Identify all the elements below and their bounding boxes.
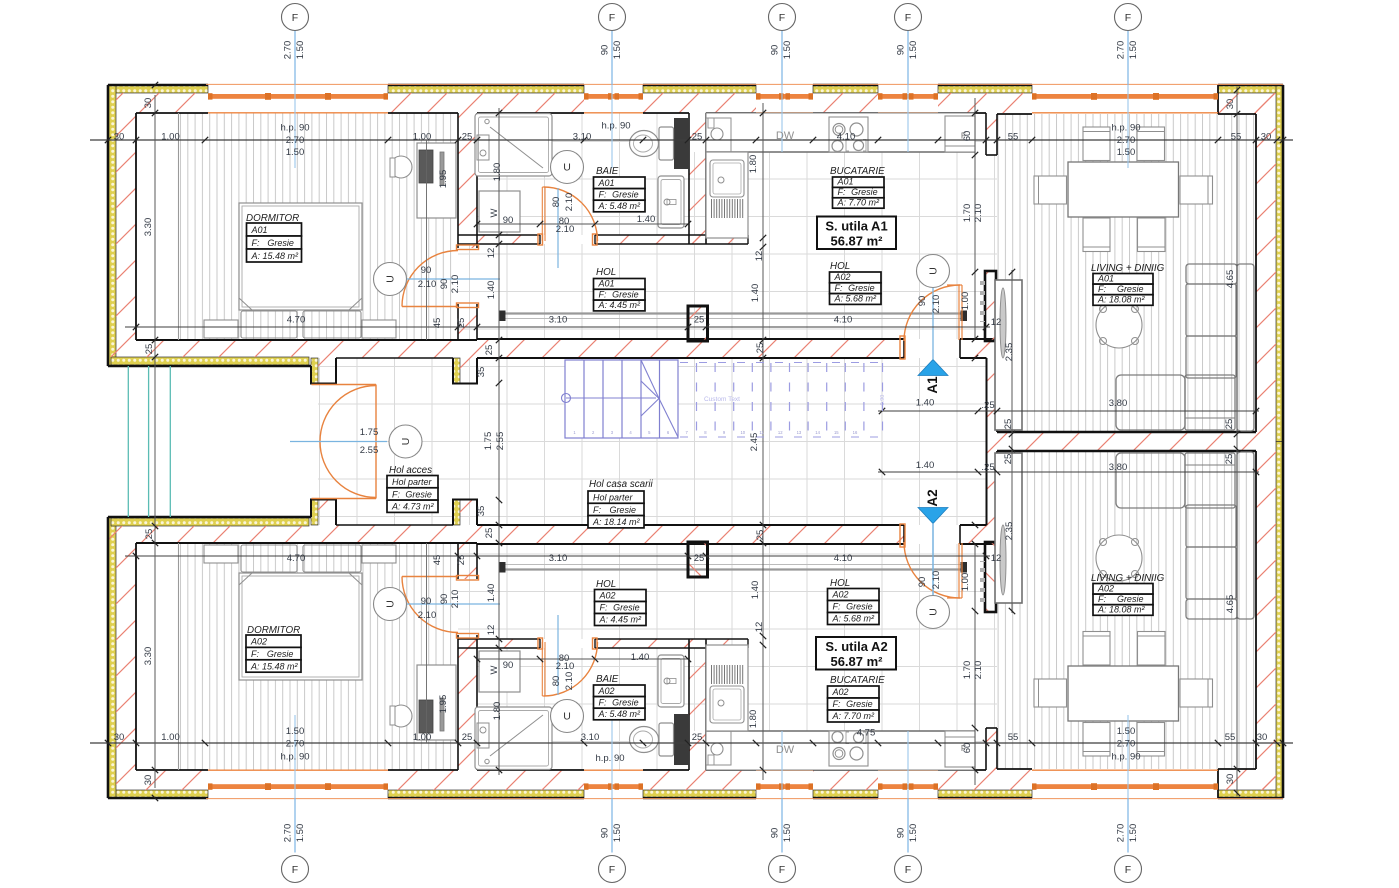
svg-text:A02: A02 [832,687,849,697]
kitchen counter [706,113,975,152]
porch wall outer face [108,365,311,367]
svg-text:4.10: 4.10 [834,553,853,564]
porch pier insulation right [453,358,460,383]
dimension column x1237 [1236,87,1238,442]
A2 door axis line [932,524,934,595]
top wall insulation yellow band [108,85,208,93]
room label BAIE [594,674,646,720]
svg-text:1.75: 1.75 [360,427,379,438]
svg-text:2.10: 2.10 [931,295,942,314]
svg-text:h.p. 90: h.p. 90 [1111,752,1140,763]
stair break lines [641,360,659,399]
svg-text:A01: A01 [837,177,854,187]
svg-text:Hol parter: Hol parter [593,493,634,503]
svg-text:45: 45 [432,555,443,566]
svg-text:1.50: 1.50 [782,41,793,60]
svg-text:90: 90 [896,828,907,839]
svg-text:A: 15.48 m²: A: 15.48 m² [251,251,300,261]
kitchen sink drainer [712,199,743,218]
svg-text:Gresie: Gresie [612,697,639,707]
grid marker F bottom x295 [282,856,309,883]
svg-text:S. utila A2: S. utila A2 [825,639,887,654]
svg-text:12: 12 [486,248,497,259]
room label HOL [828,578,880,625]
radiator dashes [980,281,985,322]
arrow A1 [918,360,948,376]
dimension row center [878,410,1259,412]
svg-text:F:: F: [1098,284,1106,294]
svg-text:A: 5.68 m²: A: 5.68 m² [832,614,876,624]
stair tread numbers [573,430,858,435]
svg-text:30: 30 [143,98,154,109]
svg-text:90: 90 [917,296,928,307]
svg-text:1.50: 1.50 [286,147,305,158]
svg-text:A02: A02 [832,590,849,600]
svg-text:U: U [563,162,571,174]
svg-text:1.40: 1.40 [916,398,935,409]
porch pier left outline [311,358,336,384]
grid marker F bottom x908 [895,856,922,883]
svg-text:4.70: 4.70 [287,553,306,564]
porch canopy teal lines [128,366,170,517]
wall hatch fills [108,93,1276,790]
window W5 frame [1032,93,1218,113]
svg-text:U: U [928,608,940,616]
bedroom parquet boundary line [178,113,180,340]
svg-text:1.70: 1.70 [962,204,973,223]
kitchen tall sink unit [706,152,748,238]
svg-text:1.80: 1.80 [492,163,503,182]
svg-text:15: 15 [834,430,839,435]
svg-text:55: 55 [1225,732,1236,743]
svg-text:1.50: 1.50 [908,824,919,843]
mirrored floors bottom half [108,442,1283,799]
bed pillows [241,311,361,338]
svg-text:60: 60 [962,743,973,754]
svg-text:4.70: 4.70 [287,315,306,326]
grid axis blue lines [295,31,1128,853]
arrow A2 [918,508,948,524]
svg-text:Gresie: Gresie [1117,284,1144,294]
svg-text:DW: DW [776,744,795,756]
svg-text:A: 18.14 m²: A: 18.14 m² [592,517,641,527]
bathroom door axis line [557,188,559,268]
svg-text:h.p. 90: h.p. 90 [280,752,309,763]
svg-text:35: 35 [476,367,487,378]
dimension row rooms [125,326,990,328]
svg-text:h.p. 90: h.p. 90 [601,121,630,132]
room label BUCATARIE [828,675,886,722]
svg-text:BUCATARIE: BUCATARIE [830,675,885,686]
svg-text:16: 16 [853,430,858,435]
entry double door [312,385,377,499]
svg-text:2.70: 2.70 [286,739,305,750]
grid marker F bottom x782 [769,856,796,883]
washing machine [479,191,520,232]
svg-text:A01: A01 [251,225,268,235]
svg-text:1.00: 1.00 [413,732,432,743]
window W3 frame [756,93,813,113]
svg-text:BAIE: BAIE [596,674,619,685]
svg-text:A1: A1 [925,376,940,394]
svg-text:90: 90 [770,828,781,839]
svg-text:90: 90 [503,215,514,226]
svg-text:A: 4.45 m²: A: 4.45 m² [599,615,643,625]
mirrored geometry bottom half [90,442,1293,802]
svg-text:55: 55 [1008,732,1019,743]
bed [239,203,362,310]
svg-text:Gresie: Gresie [846,699,873,709]
floor edge beam caps [499,311,506,322]
grid marker F bottom x612 [599,856,626,883]
bedroom-bath wall edges [457,113,459,248]
desk chair [390,156,412,178]
svg-text:25: 25 [144,529,155,540]
bedroom door axis line [407,278,500,280]
svg-text:F: F [609,12,615,24]
kitchen and hall tile floor [706,113,986,339]
svg-text:F:: F: [599,289,607,299]
bath bottom wall edges [458,234,540,236]
svg-text:25: 25 [456,555,467,566]
svg-text:25: 25 [1003,419,1014,430]
svg-text:3.10: 3.10 [581,732,600,743]
top-right corner wall lines [1217,85,1219,114]
svg-text:A: 18.08 m²: A: 18.08 m² [1097,605,1146,615]
svg-text:Custom Text: Custom Text [704,396,740,403]
svg-text:25: 25 [462,132,473,143]
svg-text:1.00: 1.00 [413,132,432,143]
dimension column x499 [498,108,500,442]
stove [829,117,868,152]
svg-text:W: W [489,665,500,674]
passage tile floor [986,155,997,272]
living divider wall face [997,431,1256,433]
dimension column x155 [154,95,156,442]
dimension texts top row [114,121,1272,159]
svg-text:A: 5.48 m²: A: 5.48 m² [598,709,642,719]
svg-text:A02: A02 [1097,583,1114,593]
svg-text:25: 25 [462,732,473,743]
svg-text:80: 80 [551,197,562,208]
svg-text:25: 25 [1224,419,1235,430]
svg-text:60: 60 [962,131,973,142]
svg-text:Gresie: Gresie [612,289,639,299]
svg-text:U: U [928,267,940,275]
svg-text:A: 5.68 m²: A: 5.68 m² [834,294,878,304]
dimension texts center rows [916,317,1128,564]
svg-text:90: 90 [439,594,450,605]
svg-text:1.00: 1.00 [960,292,971,311]
svg-text:U: U [385,275,397,283]
svg-text:A02: A02 [598,686,615,696]
svg-text:25: 25 [484,528,495,539]
svg-text:DW: DW [776,130,795,142]
svg-text:2.10: 2.10 [450,590,461,609]
bath vanity [658,176,684,228]
svg-text:2.10: 2.10 [973,204,984,223]
svg-text:1.50: 1.50 [295,41,306,60]
window W4 frame [878,93,938,113]
svg-text:25: 25 [694,315,705,326]
porch wall insulation yellow band [111,357,309,365]
svg-text:1.50: 1.50 [612,41,623,60]
shower tray [475,114,552,177]
svg-text:56.87 m²: 56.87 m² [830,654,883,669]
grid marker F top x612 [599,4,626,31]
svg-text:1.50: 1.50 [1117,726,1136,737]
kitchen-living wall stub edges [985,113,987,155]
svg-text:90: 90 [917,577,928,588]
svg-text:1.50: 1.50 [295,824,306,843]
svg-text:13: 13 [797,430,802,435]
window W1 frame [208,93,388,113]
entry opening head line [336,357,453,359]
toilet [659,127,674,160]
grid marker F top x782 [769,4,796,31]
A1 door jambs [903,339,905,358]
svg-text:F: F [905,12,911,24]
svg-text:2.10: 2.10 [418,279,437,290]
nightstand right [362,320,396,338]
svg-text:Hol casa scarii: Hol casa scarii [589,479,654,490]
svg-text:25: 25 [144,344,155,355]
svg-text:1.40: 1.40 [631,652,650,663]
dining table [1068,162,1179,217]
tv cabinet [995,280,1022,430]
svg-text:4.65: 4.65 [1225,595,1236,614]
svg-text:1.00: 1.00 [161,732,180,743]
fridge [945,116,975,152]
desk monitor [440,152,444,185]
svg-text:25: 25 [692,132,703,143]
svg-text:10: 10 [740,430,745,435]
svg-text:F: F [779,864,785,876]
door label circle U [917,255,950,288]
svg-text:A: 4.45 m²: A: 4.45 m² [598,300,642,310]
axis dimension labels bottom [283,824,1140,843]
svg-text:2.10: 2.10 [418,610,437,621]
stair center line [566,397,656,399]
svg-text:45: 45 [432,318,443,329]
svg-text:Hol parter: Hol parter [392,477,433,487]
svg-text:U: U [563,711,571,723]
left wall insulation yellow band [108,85,116,366]
svg-text:30: 30 [1261,132,1272,143]
svg-text:2.10: 2.10 [973,661,984,680]
svg-text:Hol acces: Hol acces [389,465,432,476]
svg-text:1.40: 1.40 [750,284,761,303]
svg-text:2.70: 2.70 [283,41,294,60]
svg-text:F: F [1125,864,1131,876]
svg-text:3.30: 3.30 [143,218,154,237]
svg-text:HOL: HOL [596,267,616,278]
svg-text:Gresie: Gresie [267,649,294,659]
svg-text:30: 30 [1225,774,1236,785]
svg-text:A02: A02 [250,637,267,647]
door label circle U [389,425,422,458]
svg-text:1.80: 1.80 [492,702,503,721]
stair dashed upper flight [680,363,884,438]
dimension texts room row bottom [287,553,853,564]
svg-text:F:: F: [252,238,260,248]
window sill outer orange line [206,83,1283,85]
dining chairs top [1083,127,1110,161]
svg-text:Gresie: Gresie [1117,594,1144,604]
svg-text:Gresie: Gresie [267,238,294,248]
porch pier insulation left [311,358,318,383]
floor edge pier [688,306,708,341]
room label LIVING plus DINIIG [1091,263,1165,305]
svg-text:Gresie: Gresie [851,187,878,197]
left wall inner face [135,113,137,340]
desk keyboard [419,150,433,183]
svg-text:25: 25 [456,318,467,329]
svg-text:4.10: 4.10 [837,132,856,143]
svg-text:1.50: 1.50 [286,726,305,737]
bath-kitchen wall edges [688,113,690,244]
svg-text:11: 11 [759,430,764,435]
svg-text:35: 35 [476,506,487,517]
dimension texts bottom row [114,726,1268,764]
room label BAIE [594,166,646,212]
dimension row top [90,139,1293,141]
svg-text:90: 90 [421,265,432,276]
svg-text:25: 25 [755,343,766,354]
svg-text:A: 7.70 m²: A: 7.70 m² [832,711,876,721]
svg-text:25: 25 [755,530,766,541]
svg-text:F:: F: [593,505,601,515]
svg-text:2.70: 2.70 [286,135,305,146]
stair solid flight [565,360,678,438]
svg-text:F: F [1125,12,1131,24]
svg-text:BAIE: BAIE [596,166,619,177]
svg-text:90: 90 [600,45,611,56]
tv screen [1000,288,1006,358]
svg-text:A01: A01 [598,178,615,188]
svg-text:4.65: 4.65 [1225,270,1236,289]
svg-text:2.70: 2.70 [283,824,294,843]
svg-text:F:: F: [599,697,607,707]
svg-text:1.50: 1.50 [908,41,919,60]
apartment side wall face [136,339,477,341]
svg-text:2.35: 2.35 [1004,343,1015,362]
svg-text:2.10: 2.10 [556,661,575,672]
shower faucet [485,119,489,123]
svg-text:2.10: 2.10 [450,275,461,294]
svg-text:F: F [292,12,298,24]
svg-text:F:: F: [600,603,608,613]
svg-text:W: W [489,208,500,217]
svg-text:1.40: 1.40 [750,581,761,600]
bath plumbing wall solid [674,118,689,169]
svg-text:3.10: 3.10 [573,132,592,143]
right wall insulation yellow band [1276,85,1283,442]
svg-text:A2: A2 [925,489,940,506]
room label Hol casa scarii [588,479,654,528]
svg-text:12: 12 [754,622,765,633]
upper floor edge line [499,312,967,314]
svg-text:A: 15.48 m²: A: 15.48 m² [250,661,299,671]
apartment A1 door axis line [932,288,934,359]
svg-text:1.50: 1.50 [612,824,623,843]
svg-text:Gresie: Gresie [405,489,432,499]
svg-text:1.50: 1.50 [782,824,793,843]
corridor tile floor [318,358,986,442]
svg-text:2.10: 2.10 [556,224,575,235]
axis dimension labels top [283,41,1140,60]
svg-text:2.10: 2.10 [564,672,575,691]
svg-text:2.70: 2.70 [1116,41,1127,60]
dining chairs sides [1034,176,1067,204]
svg-text:A: 18.08 m²: A: 18.08 m² [1097,295,1146,305]
svg-text:A: 5.48 m²: A: 5.48 m² [598,201,642,211]
hall A01 tile floor [458,244,706,339]
svg-text:25: 25 [692,732,703,743]
svg-text:3.80: 3.80 [1109,398,1128,409]
door label circle U [551,700,584,733]
kitchen counter small sink [706,118,731,152]
svg-text:2.70: 2.70 [1117,739,1136,750]
svg-text:HOL: HOL [830,261,850,272]
door label circle U [917,596,950,629]
svg-text:2.55: 2.55 [360,445,379,456]
svg-text:F:: F: [835,283,843,293]
dining chairs bottom [1083,218,1110,252]
nightstand left [204,320,238,338]
svg-text:A01: A01 [598,279,615,289]
svg-text:80: 80 [551,676,562,687]
svg-text:90: 90 [439,279,450,290]
svg-text:F:: F: [833,602,841,612]
svg-text:3.10: 3.10 [549,553,568,564]
svg-text:1.50: 1.50 [1128,41,1139,60]
svg-text:2.70: 2.70 [1117,135,1136,146]
svg-text:A02: A02 [834,272,851,282]
dimension column x426 [426,140,428,340]
svg-text:h.p. 90: h.p. 90 [595,753,624,764]
svg-text:90: 90 [503,660,514,671]
svg-text:1.00: 1.00 [960,573,971,592]
door label circle U [374,588,407,621]
room label LIVING plus DINIIG [1091,573,1165,615]
svg-text:A01: A01 [1097,273,1114,283]
svg-text:h.p. 90: h.p. 90 [280,123,309,134]
svg-text:1.95: 1.95 [438,170,449,189]
dimension column x1012 [1011,270,1013,442]
svg-text:U: U [400,438,412,446]
svg-text:1.40: 1.40 [486,281,497,300]
svg-text:2.35: 2.35 [1004,522,1015,541]
svg-text:F: F [609,864,615,876]
svg-text:30: 30 [1225,99,1236,110]
svg-text:90: 90 [770,45,781,56]
porch pier right outline [453,358,477,384]
svg-text:3.10: 3.10 [549,315,568,326]
room label Hol acces [387,465,438,512]
svg-text:F:: F: [599,189,607,199]
svg-text:HOL: HOL [596,579,616,590]
svg-text:.25: .25 [981,400,994,411]
top wall inner face [136,112,208,114]
svg-text:90: 90 [896,45,907,56]
svg-text:1.75: 1.75 [483,432,494,451]
building outer wall outline [108,84,208,87]
svg-text:0.90: 0.90 [880,395,886,406]
svg-text:55: 55 [1008,132,1019,143]
svg-text:12: 12 [991,317,1002,328]
svg-text:F:: F: [251,649,259,659]
